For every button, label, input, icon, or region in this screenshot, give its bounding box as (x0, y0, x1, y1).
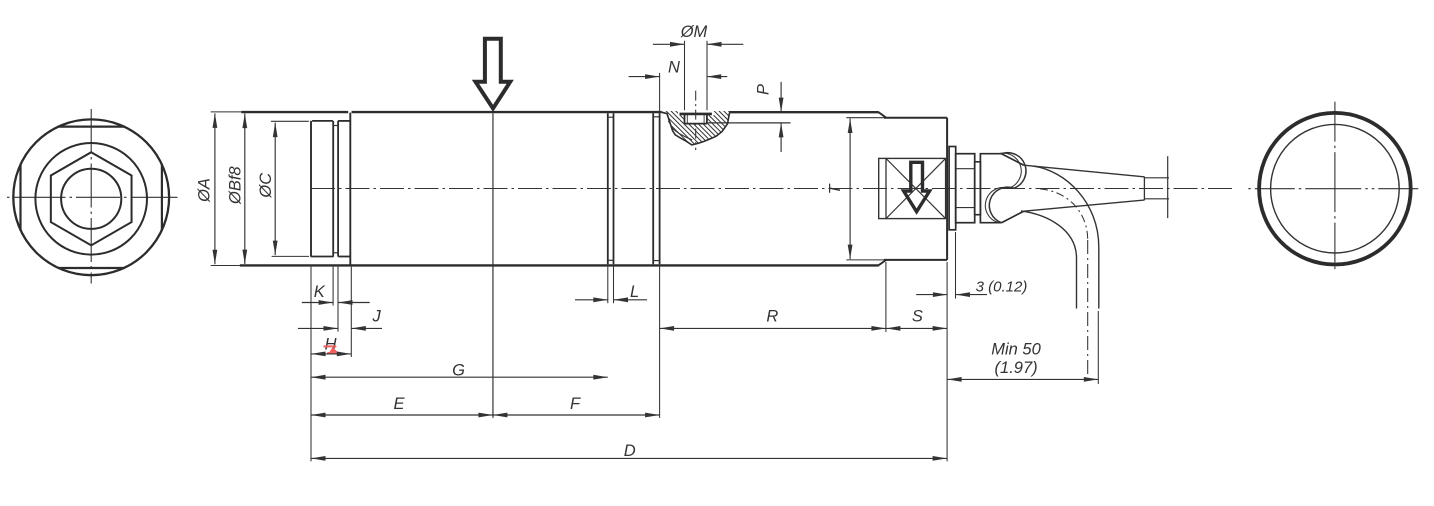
gland hex flat lines (956, 168, 975, 170)
dimension N extension line (659, 73, 661, 111)
tapped hole bottom / counterbore ledge (685, 123, 707, 125)
dimension H red markup line (324, 345, 337, 347)
square block right face (946, 118, 948, 260)
pocket inner sliver line (668, 121, 692, 140)
svg-text:(1.97): (1.97) (995, 359, 1038, 377)
extension line junction (659, 267, 661, 418)
dimension T extension lines (846, 117, 884, 119)
left end view wrench flat - right chord (161, 164, 163, 231)
cable end view horizontal centerline (1248, 188, 1420, 190)
groove L ledges (608, 116, 614, 118)
junction groove ledges (653, 116, 659, 118)
left end view vertical centerline (90, 109, 92, 284)
svg-text:K: K (314, 283, 326, 301)
tapped hole collar (680, 113, 712, 116)
extension line bent cable (1097, 311, 1099, 384)
left end view wrench flat - bottom chord (58, 267, 125, 269)
bent cable inner curve (1021, 211, 1077, 309)
tapped hole centerline (695, 91, 697, 150)
load axis extension line (492, 113, 494, 418)
connector window diagonal 2 (886, 158, 946, 218)
svg-text:L: L (630, 283, 639, 301)
dimension OBf8 line (244, 114, 246, 265)
svg-text:P: P (755, 84, 773, 95)
groove L left wall (607, 113, 609, 264)
bent cable centerline (1040, 189, 1088, 240)
left end view horizontal centerline (7, 196, 178, 198)
connector window diagonal 1 (886, 158, 946, 218)
dimension OC extension lines (271, 120, 309, 122)
straight cable taper bottom (1024, 200, 1145, 211)
straight cable stub (1144, 177, 1169, 179)
square block bottom edge (884, 259, 947, 261)
body top outline (241, 111, 348, 113)
window load arrow (904, 162, 930, 211)
dimension OA extension lines (211, 111, 242, 113)
left end view middle circle (boss dia) (35, 143, 147, 255)
left end view wrench flat - top chord (58, 125, 125, 127)
dimension OC line (274, 123, 276, 256)
dimension OM extension lines (684, 41, 686, 110)
retaining groove right wall (337, 121, 339, 257)
dimension J line (298, 327, 338, 329)
right end chamfer bottom (879, 260, 887, 265)
extension line groove right (337, 267, 339, 332)
retaining groove ledges (333, 125, 338, 127)
straight cable taper top (1024, 165, 1145, 177)
dimension K line (302, 302, 333, 304)
dimension F line (493, 414, 660, 416)
gland neck ring (975, 162, 981, 215)
extension line groove L right (613, 267, 615, 304)
left boss shoulder lower edge (311, 256, 334, 258)
extension line block start (885, 262, 887, 332)
strain relief dome arcs (989, 153, 1026, 223)
body bottom outline (240, 264, 879, 266)
svg-text:F: F (570, 395, 581, 413)
left end view inner circle (thread hole) (61, 169, 121, 229)
bent cable outer curve (1033, 166, 1099, 308)
svg-text:N: N (668, 59, 680, 77)
main cylinder left face (349, 113, 351, 265)
extension line block right face (946, 262, 948, 461)
groove L right wall (613, 113, 615, 264)
svg-text:Min 50: Min 50 (991, 340, 1041, 358)
extension line gland flange face (955, 232, 957, 299)
extension line left face (310, 267, 312, 462)
strain relief dome outline (980, 154, 1023, 223)
gland hex body (956, 154, 975, 223)
square block top edge (884, 117, 947, 119)
load direction arrow (476, 39, 511, 109)
straight cable end cap (1143, 177, 1145, 201)
cable end view inner circle (1271, 124, 1400, 253)
dimension E line (311, 414, 493, 416)
dimension OM line (653, 43, 685, 45)
left end view outer circle (body OD) (13, 119, 169, 275)
svg-text:R: R (766, 308, 778, 326)
connector window inner edge (885, 158, 887, 218)
connector window box (879, 158, 946, 218)
dimension G line (311, 376, 608, 378)
dimension T line (849, 119, 851, 260)
left end view hex socket (51, 152, 132, 245)
tapped hole right wall (706, 114, 708, 124)
svg-text:D: D (624, 442, 636, 460)
cable end view outer circle (1259, 113, 1411, 265)
dimension OA line (214, 113, 216, 264)
dimension R line (660, 327, 886, 329)
svg-text:E: E (393, 395, 405, 413)
dimension Min 50 line (947, 378, 1098, 380)
right end chamfer top (879, 112, 887, 118)
dimension H line (311, 353, 351, 355)
tapped hole left wall (684, 114, 686, 124)
dimension H red markup wedge (329, 347, 338, 352)
svg-text:ØC: ØC (257, 173, 275, 199)
dimension D line (311, 457, 947, 459)
svg-text:T: T (827, 183, 844, 194)
side view main centerline (311, 188, 1233, 190)
svg-text:ØA: ØA (196, 178, 214, 203)
svg-text:S: S (912, 308, 923, 326)
svg-text:3 (0.12): 3 (0.12) (976, 278, 1028, 295)
dimension 3 (0.12) line (916, 294, 947, 296)
extension line groove L left (607, 267, 609, 304)
dimension L line (575, 299, 608, 301)
svg-text:ØBf8: ØBf8 (227, 166, 245, 205)
junction groove left wall (652, 113, 654, 264)
dimension P line and arrows (780, 82, 782, 112)
cable end view vertical centerline (1334, 102, 1336, 273)
left end view wrench flat - left chord (19, 164, 21, 231)
svg-text:J: J (371, 308, 381, 326)
left face of boss (OC) (310, 121, 312, 257)
extension line cylinder face (350, 267, 352, 357)
svg-text:ØM: ØM (680, 23, 708, 41)
junction groove right wall (659, 113, 661, 264)
left boss shoulder upper edge (312, 120, 333, 122)
cable break tick (1167, 156, 1169, 218)
dimension N line (629, 76, 660, 78)
svg-text:G: G (452, 361, 465, 379)
extension line groove left (332, 267, 334, 306)
retaining groove left wall (332, 121, 334, 257)
tapped hole thread lines (686, 114, 688, 124)
dimension S line (886, 327, 947, 329)
gland flange plate (949, 147, 956, 230)
